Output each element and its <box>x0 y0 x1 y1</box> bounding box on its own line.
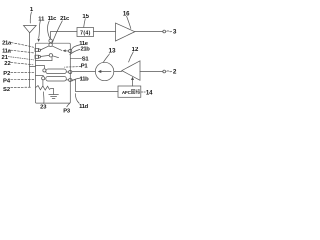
port circle lower resonator left <box>42 77 45 80</box>
switch port circle 21c (below edge) <box>49 43 52 46</box>
leader for label S1 <box>71 57 82 59</box>
leader for label P2 <box>11 71 35 73</box>
svg-text:P1: P1 <box>81 64 89 70</box>
divider wire in block <box>36 60 53 62</box>
wire block to oscillator <box>72 71 96 73</box>
wire antenna stem <box>29 33 31 87</box>
leader for label 23 <box>43 92 45 104</box>
wire upper resonator to port <box>66 71 68 73</box>
svg-text:S1: S1 <box>82 56 90 62</box>
leader for label 22 <box>11 63 33 65</box>
svg-text:AFC: AFC <box>122 90 132 95</box>
leader for label 11b <box>72 78 81 81</box>
svg-text:1: 1 <box>30 7 34 13</box>
leader for label 11e <box>71 45 81 50</box>
switch arm pad to circle B <box>40 46 49 50</box>
switch arm circle B to right <box>52 46 62 51</box>
antenna <box>24 26 37 33</box>
leader for label S2 <box>11 86 31 88</box>
switch common circle C <box>49 54 52 57</box>
terminal circle 3 <box>163 30 166 33</box>
svg-text:S2: S2 <box>3 87 10 93</box>
amplifier 12 <box>122 61 140 81</box>
leader for label 11 (arrow into block) <box>39 21 41 38</box>
port circle upper resonator left <box>43 69 46 72</box>
switch arm pad to circle C <box>40 55 49 56</box>
svg-text:11d: 11d <box>79 104 89 110</box>
svg-text:21b: 21b <box>80 47 90 53</box>
svg-text:15: 15 <box>82 14 89 20</box>
resonator P1 (upper) <box>46 69 67 74</box>
wire riser to filter box <box>51 32 78 40</box>
leader for label 15 <box>84 19 86 28</box>
ground <box>53 89 55 95</box>
wire with arrow from port 11e <box>65 50 69 52</box>
leader for label 21b <box>70 49 80 54</box>
svg-text:P2: P2 <box>3 71 10 77</box>
wire lower resonator to port <box>66 79 68 81</box>
AFC circuit box 14 <box>118 86 141 97</box>
switch port circle 11c (above edge) <box>49 39 52 42</box>
svg-text:21a: 21a <box>2 40 12 46</box>
leader dashes to label 14 <box>141 91 145 93</box>
leader for label 21a <box>11 43 34 48</box>
leader for label 11a <box>11 50 34 53</box>
leader dashes to label 2 <box>167 70 172 73</box>
switch arm circle C to right <box>53 56 59 58</box>
oscillator 13 <box>95 62 113 80</box>
pad 21a on left edge <box>35 48 39 51</box>
wire stem tick <box>30 66 36 68</box>
svg-text:2: 2 <box>173 69 177 76</box>
leader for label 12 <box>129 52 134 62</box>
wire amp 12 input <box>140 71 163 73</box>
terminal circle 2 <box>163 70 166 73</box>
svg-text:21c: 21c <box>60 16 70 22</box>
wire AFC to block port <box>72 80 118 92</box>
port circle 11e on right edge <box>69 49 72 52</box>
pad 11a on left edge <box>35 55 39 58</box>
leader for label 21 <box>8 57 33 60</box>
port circle on right edge (to AFC) <box>69 78 72 81</box>
arrow inside oscillator <box>101 71 112 73</box>
wire filter box to amp 16 <box>94 31 116 33</box>
wire oscillator to amp 12 <box>114 71 122 73</box>
svg-text:11a: 11a <box>2 48 12 54</box>
wire to lower resonator <box>36 76 44 77</box>
resonator 11b (lower) <box>46 76 67 81</box>
wire port down to resistor <box>42 80 44 86</box>
leader for label P1 <box>65 66 81 69</box>
leader for label 13 <box>103 54 109 63</box>
leader dashes to label 3 <box>167 30 172 33</box>
leader for label P4 <box>11 79 35 81</box>
switch block 11/21 outline <box>36 43 71 103</box>
svg-text:P4: P4 <box>3 78 11 84</box>
amplifier 16 <box>116 23 135 41</box>
svg-text:14: 14 <box>146 91 153 97</box>
leader for label 16 <box>127 16 131 28</box>
leader for label 21c <box>52 21 62 44</box>
leader for label 1 <box>30 12 31 23</box>
svg-text:23: 23 <box>40 104 47 110</box>
wire AFC to amp 12 with arrow <box>132 79 134 86</box>
svg-text:11b: 11b <box>80 76 90 82</box>
svg-text:22: 22 <box>4 61 10 67</box>
svg-text:P3: P3 <box>63 108 71 114</box>
port circle on right edge (to oscillator) <box>69 70 72 73</box>
svg-text:11: 11 <box>38 17 45 23</box>
wire amp 16 output <box>135 31 163 33</box>
filter box 15 "7(4)" <box>77 28 94 37</box>
leader for label 11c <box>48 21 50 39</box>
svg-text:3: 3 <box>173 28 177 35</box>
svg-text:7(4): 7(4) <box>80 30 90 36</box>
resistor 23 <box>36 86 54 90</box>
leader for label 11d <box>75 94 79 104</box>
leader for label P3 <box>67 103 70 107</box>
wire to upper resonator <box>36 66 45 69</box>
